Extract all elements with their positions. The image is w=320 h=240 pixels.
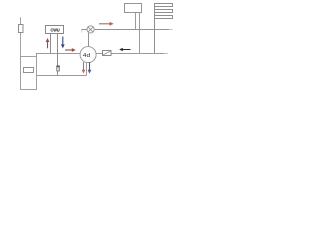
arrow red right (top pipe flow) bbox=[99, 22, 114, 26]
wire: top pipe left segment bbox=[81, 29, 87, 31]
wire: CWU right leg down to return pipe bbox=[57, 34, 59, 76]
svg-text:CWU: CWU bbox=[51, 27, 60, 32]
boiler door bbox=[24, 68, 34, 73]
valve V2 on CWU right leg bbox=[56, 66, 59, 72]
wire: stub tick at top pipe left end bbox=[81, 30, 83, 33]
pump P1 circle bbox=[80, 47, 96, 63]
wire: bottom return pipe bbox=[37, 75, 87, 77]
wire: safety riser pipe left bbox=[20, 17, 22, 56]
wire: expansion tank right leg bbox=[139, 13, 141, 54]
wire: top pipe right segment bbox=[94, 29, 169, 31]
wire: middle supply pipe (pump to right end) bbox=[96, 53, 164, 55]
arrow blue down (pump return right) bbox=[88, 62, 92, 73]
arrow red right (supply flow into pump) bbox=[65, 48, 76, 52]
arrow red down (pump return left) bbox=[82, 62, 86, 73]
wire: expansion tank left leg bbox=[135, 13, 137, 30]
wire: riser from return pipe to pump bottom bbox=[86, 62, 88, 75]
wire: stub from tank top to supply pipe bbox=[36, 54, 38, 57]
boiler tank (stove body) bbox=[21, 57, 37, 90]
arrow red up (CWU hot out) bbox=[46, 38, 50, 48]
CWU heat exchanger box bbox=[46, 26, 64, 34]
wire: CWU left leg bbox=[50, 34, 52, 54]
arrow blue down (CWU cold in) bbox=[61, 37, 65, 49]
wire: pump top to vent valve bbox=[88, 33, 90, 47]
expansion tank box top right bbox=[125, 4, 142, 13]
svg-text:4d: 4d bbox=[83, 53, 90, 59]
safety valve V1 on riser bbox=[19, 25, 24, 33]
heating coil serpentine bbox=[155, 4, 173, 54]
arrow dark navy left (return flow) bbox=[119, 48, 130, 51]
pump P1 symbol bbox=[83, 53, 90, 59]
wire: middle supply pipe (tank to pump) bbox=[36, 53, 80, 55]
filter F1 on supply pipe bbox=[103, 51, 112, 56]
air vent valve circle with cross bbox=[87, 26, 94, 33]
